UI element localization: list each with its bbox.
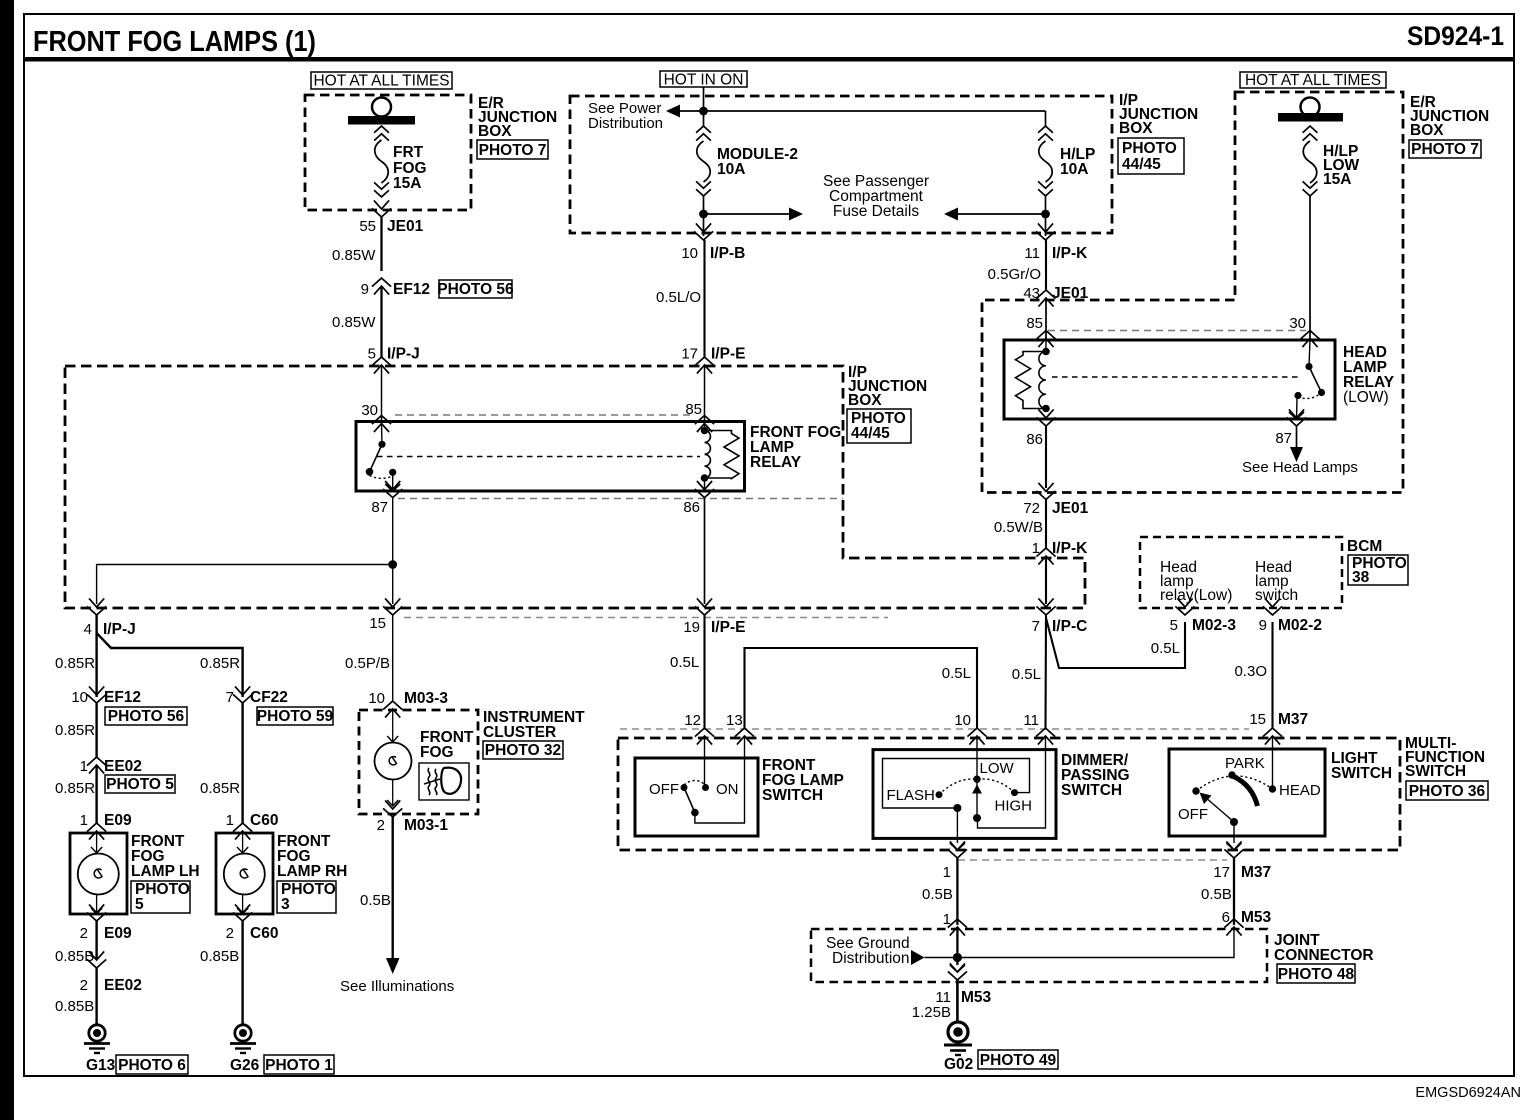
multi-function switch label bbox=[1405, 735, 1485, 780]
front fog relay internal dashed line bbox=[377, 456, 700, 458]
svg-text:0.5L: 0.5L bbox=[1012, 666, 1041, 683]
svg-text:10: 10 bbox=[681, 245, 698, 262]
wire I/P-J to relay pin 30 bbox=[381, 366, 383, 421]
svg-text:M02-3: M02-3 bbox=[1192, 617, 1236, 634]
wire CF22 to C60 0.85R bbox=[241, 703, 243, 823]
svg-text:15: 15 bbox=[369, 615, 386, 632]
connector 13 bbox=[726, 712, 754, 745]
connector 17 I/P-E bbox=[681, 346, 745, 374]
svg-text:2: 2 bbox=[377, 817, 385, 834]
svg-text:FRONT FOG LAMPS (1): FRONT FOG LAMPS (1) bbox=[33, 26, 316, 58]
PHOTO 7 label (right) bbox=[1409, 140, 1481, 158]
svg-text:44/45: 44/45 bbox=[1122, 156, 1161, 173]
svg-text:1: 1 bbox=[943, 864, 951, 881]
svg-text:I/P-K: I/P-K bbox=[1052, 540, 1088, 557]
connector 87 (head lamp relay) bbox=[1275, 409, 1306, 447]
connector 85 (head lamp relay) bbox=[1026, 315, 1055, 347]
head lamp relay coil bbox=[1039, 352, 1046, 409]
wire I/P-J 4 down 0.85R bbox=[95, 615, 97, 697]
svg-text:CLUSTER: CLUSTER bbox=[483, 724, 556, 741]
svg-text:relay(Low): relay(Low) bbox=[1160, 587, 1232, 604]
svg-text:BOX: BOX bbox=[848, 392, 882, 409]
svg-text:5: 5 bbox=[1170, 617, 1178, 634]
dimmer/passing switch box bbox=[873, 750, 1056, 839]
E/R junction box label bbox=[478, 95, 557, 140]
svg-text:E09: E09 bbox=[104, 812, 132, 829]
svg-text:HOT AT ALL TIMES: HOT AT ALL TIMES bbox=[313, 73, 449, 90]
junction node below 87 bbox=[388, 560, 397, 569]
HOT IN ON label bbox=[660, 71, 747, 89]
svg-text:0.85R: 0.85R bbox=[55, 780, 95, 797]
svg-text:I/P-J: I/P-J bbox=[387, 346, 420, 363]
PHOTO 6 label bbox=[116, 1055, 188, 1074]
svg-text:EF12: EF12 bbox=[104, 689, 141, 706]
arrow see ground distribution bbox=[911, 950, 925, 965]
svg-text:15: 15 bbox=[1249, 711, 1266, 728]
svg-text:FOG: FOG bbox=[420, 744, 454, 761]
svg-text:BOX: BOX bbox=[1119, 120, 1153, 137]
wire branch to RH lamp bbox=[97, 633, 243, 697]
wire C60 to ground 0.85B bbox=[241, 921, 243, 1026]
svg-text:G26: G26 bbox=[230, 1057, 260, 1074]
connector 17 M37 bbox=[1213, 841, 1271, 881]
wire M03-1 to see illuminations 0.5B bbox=[392, 817, 394, 960]
svg-text:15A: 15A bbox=[393, 175, 421, 192]
connector 2 EE02 bbox=[80, 951, 142, 994]
PHOTO 7 label (left) bbox=[477, 140, 548, 159]
wire 86 to JE01 bbox=[1045, 426, 1047, 488]
svg-text:Distribution: Distribution bbox=[832, 950, 910, 967]
svg-text:M02-2: M02-2 bbox=[1278, 617, 1322, 634]
fuse label H/LP LOW 15A bbox=[1323, 143, 1360, 188]
head lamp relay internal dashed line bbox=[1052, 376, 1300, 378]
svg-text:0.5B: 0.5B bbox=[922, 886, 953, 903]
svg-text:HEAD: HEAD bbox=[1279, 782, 1321, 799]
wire pin 13 to dimmer pin 10 bbox=[745, 648, 978, 728]
svg-text:6: 6 bbox=[1222, 909, 1230, 926]
E/R junction box (right) + head lamp relay dashed region bbox=[982, 92, 1403, 493]
front fog lamp switch box bbox=[635, 758, 758, 836]
svg-text:PHOTO 32: PHOTO 32 bbox=[485, 742, 561, 759]
connector 4 I/P-J bbox=[84, 598, 136, 638]
wire below MODULE-2 fuse bbox=[703, 196, 705, 236]
svg-text:SWITCH: SWITCH bbox=[1061, 782, 1122, 799]
svg-text:4: 4 bbox=[84, 621, 92, 638]
svg-text:15A: 15A bbox=[1323, 171, 1351, 188]
svg-text:JE01: JE01 bbox=[1052, 500, 1089, 517]
page left black bar bbox=[0, 0, 14, 1120]
battery terminal circle (left E/R box) bbox=[372, 98, 391, 117]
dashed inner row line (switch top) bbox=[620, 728, 1249, 730]
connector 9 M02-2 bbox=[1259, 598, 1322, 634]
svg-text:0.85W: 0.85W bbox=[332, 314, 376, 331]
front fog indicator label bbox=[420, 729, 474, 761]
title rule bbox=[24, 57, 1514, 62]
svg-text:9: 9 bbox=[1259, 617, 1267, 634]
connector 85 (front fog relay) bbox=[685, 401, 714, 432]
connector 5 I/P-J bbox=[368, 346, 420, 374]
svg-text:0.85R: 0.85R bbox=[200, 780, 240, 797]
joint connector box (dashed) bbox=[811, 929, 1267, 982]
wire EE02 to ground 0.85B bbox=[95, 968, 97, 1026]
light switch box bbox=[1169, 749, 1325, 836]
svg-text:I/P-C: I/P-C bbox=[1052, 618, 1087, 635]
connector 10 I/P-B bbox=[681, 223, 745, 262]
connector 2 E09 bbox=[80, 904, 132, 942]
svg-text:10: 10 bbox=[954, 712, 971, 729]
svg-text:E09: E09 bbox=[104, 925, 132, 942]
wire pin 12 into switch bbox=[704, 737, 706, 788]
see head lamps arrow bbox=[1290, 426, 1303, 462]
svg-text:55: 55 bbox=[359, 218, 376, 235]
svg-text:M53: M53 bbox=[961, 989, 992, 1006]
svg-text:PHOTO 6: PHOTO 6 bbox=[118, 1057, 186, 1074]
dimmer/passing switch label bbox=[1061, 752, 1130, 799]
battery terminal circle (right E/R box) bbox=[1301, 98, 1320, 117]
svg-text:0.85B: 0.85B bbox=[55, 998, 94, 1015]
connector 10 EF12 bbox=[71, 686, 141, 706]
junction node (ground bus) bbox=[953, 953, 962, 962]
svg-text:85: 85 bbox=[1026, 315, 1043, 332]
connector 7 CF22 bbox=[226, 686, 288, 706]
wire I/P-C to dimmer pin 11 0.5L bbox=[1044, 615, 1047, 728]
wire EF12 to EE02 0.85R bbox=[95, 703, 97, 757]
svg-text:38: 38 bbox=[1352, 569, 1370, 586]
wire pin 10 into dimmer bbox=[976, 737, 978, 818]
wire pin 11 into dimmer bbox=[978, 737, 1046, 828]
svg-text:SWITCH: SWITCH bbox=[1405, 763, 1466, 780]
svg-text:1: 1 bbox=[1032, 540, 1040, 557]
instrument cluster box (dashed) bbox=[359, 710, 478, 814]
svg-text:PHOTO 59: PHOTO 59 bbox=[257, 708, 334, 725]
wire I/P-K to JE01 0.5Gr/O bbox=[1045, 240, 1047, 290]
fuse MODULE-2 10A bbox=[696, 126, 711, 196]
svg-text:87: 87 bbox=[371, 499, 388, 516]
wire light switch common down bbox=[1233, 822, 1235, 843]
head lamp relay switch arm bbox=[1046, 340, 1325, 419]
PHOTO 38 label bbox=[1348, 555, 1408, 586]
wire junction to I/P-J 4 bbox=[97, 565, 393, 605]
wire EF12 to I/P-J 0.85W bbox=[380, 287, 382, 357]
svg-text:10A: 10A bbox=[1060, 161, 1088, 178]
connector 30 (front fog relay) bbox=[361, 402, 391, 432]
svg-text:PHOTO 56: PHOTO 56 bbox=[108, 708, 185, 725]
I/P junction box (main, dashed outline) bbox=[65, 366, 1085, 608]
svg-text:EF12: EF12 bbox=[393, 281, 430, 298]
wire M02-2 to light switch 0.3O bbox=[1271, 622, 1273, 728]
connector 5 M02-3 bbox=[1170, 598, 1237, 634]
dashed inner row line I/P-E bbox=[404, 617, 888, 619]
svg-text:G13: G13 bbox=[86, 1057, 116, 1074]
svg-text:PARK: PARK bbox=[1225, 755, 1265, 772]
svg-text:0.5B: 0.5B bbox=[360, 892, 391, 909]
front fog lamp RH label bbox=[277, 833, 347, 880]
PHOTO 44/45 label (top) bbox=[1118, 138, 1184, 174]
BCM box (dashed) bbox=[1140, 537, 1342, 608]
svg-text:2: 2 bbox=[80, 925, 88, 942]
svg-text:CF22: CF22 bbox=[250, 689, 288, 706]
svg-text:HOT IN ON: HOT IN ON bbox=[664, 72, 744, 89]
svg-text:0.5L/O: 0.5L/O bbox=[656, 289, 701, 306]
wire I/P-B to I/P-E 0.5L/O bbox=[703, 240, 705, 357]
svg-text:M53: M53 bbox=[1241, 909, 1272, 926]
front fog indicator icon bbox=[419, 763, 469, 800]
PHOTO 48 label bbox=[1277, 964, 1355, 983]
coil terminal nodes (head lamp relay) bbox=[1042, 348, 1050, 356]
svg-text:0.5Gr/O: 0.5Gr/O bbox=[988, 266, 1041, 283]
svg-text:0.85W: 0.85W bbox=[332, 247, 376, 264]
arrow left from H/LP fuse bbox=[944, 208, 1046, 221]
svg-text:HIGH: HIGH bbox=[995, 798, 1033, 815]
see ground distribution note bbox=[826, 935, 910, 967]
connector 1 M53 bbox=[943, 911, 967, 936]
svg-text:PHOTO 5: PHOTO 5 bbox=[106, 776, 174, 793]
connector 43 JE01 bbox=[1023, 285, 1088, 307]
wire pin 13 into switch bbox=[695, 737, 745, 823]
head lamp relay box bbox=[1004, 340, 1335, 419]
wire H/LP LOW fuse to relay pin 30 bbox=[1309, 196, 1311, 340]
svg-text:RELAY: RELAY bbox=[750, 454, 802, 471]
svg-text:BOX: BOX bbox=[478, 123, 512, 140]
svg-text:86: 86 bbox=[1026, 431, 1043, 448]
svg-text:M37: M37 bbox=[1241, 864, 1271, 881]
svg-text:13: 13 bbox=[726, 712, 743, 729]
PHOTO 1 label bbox=[264, 1055, 334, 1074]
svg-text:PHOTO 1: PHOTO 1 bbox=[265, 1057, 333, 1074]
svg-text:44/45: 44/45 bbox=[851, 425, 890, 442]
svg-text:I/P-E: I/P-E bbox=[711, 619, 745, 636]
coil terminal nodes (front fog relay) bbox=[701, 427, 709, 435]
front fog lamp LH label bbox=[131, 833, 200, 880]
svg-text:I/P-B: I/P-B bbox=[710, 245, 745, 262]
svg-text:LOW: LOW bbox=[980, 760, 1015, 777]
svg-text:10: 10 bbox=[368, 690, 385, 707]
ground G02 bbox=[944, 1022, 973, 1073]
svg-text:11: 11 bbox=[1023, 712, 1039, 729]
wire 85 into coil bbox=[704, 424, 706, 431]
svg-text:OFF: OFF bbox=[649, 781, 679, 798]
PHOTO 59 label bbox=[257, 707, 334, 725]
light switch contacts OFF/PARK/HEAD bbox=[1178, 755, 1321, 826]
fuse FRT FOG 15A bbox=[374, 126, 389, 197]
svg-text:17: 17 bbox=[681, 346, 698, 363]
fuse label FRT FOG 15A bbox=[393, 144, 427, 192]
svg-text:11: 11 bbox=[1024, 245, 1040, 262]
connector 2 M03-1 bbox=[377, 800, 449, 834]
connector 11 I/P-K bbox=[1024, 223, 1088, 262]
joint connector label bbox=[1274, 932, 1374, 964]
junction node below MODULE-2 bbox=[699, 210, 708, 219]
svg-text:0.85R: 0.85R bbox=[200, 655, 240, 672]
PHOTO 44/45 label (middle) bbox=[847, 409, 911, 443]
E/R junction box (left, dashed) bbox=[305, 95, 471, 210]
BCM pin label head lamp switch bbox=[1255, 559, 1298, 604]
svg-text:72: 72 bbox=[1023, 500, 1040, 517]
svg-text:OFF: OFF bbox=[1178, 806, 1208, 823]
connector 1 EE02 bbox=[80, 757, 142, 775]
connector 19 I/P-E bbox=[683, 598, 745, 636]
wire top bus in HOT IN ON box bbox=[680, 87, 1046, 126]
svg-text:EE02: EE02 bbox=[104, 977, 142, 994]
svg-text:C60: C60 bbox=[250, 925, 278, 942]
wire 87 down to junction bbox=[392, 498, 394, 565]
svg-text:FLASH: FLASH bbox=[887, 787, 935, 804]
svg-text:LAMP RH: LAMP RH bbox=[277, 863, 347, 880]
svg-text:Distribution: Distribution bbox=[588, 115, 663, 132]
see passenger compartment fuse details note bbox=[823, 173, 929, 220]
wire below H/LP fuse bbox=[1045, 196, 1047, 236]
svg-text:JE01: JE01 bbox=[387, 218, 424, 235]
svg-text:EE02: EE02 bbox=[104, 758, 142, 775]
svg-text:M03-3: M03-3 bbox=[404, 690, 448, 707]
front fog lamp RH box bbox=[216, 833, 273, 914]
fuse label H/LP 10A bbox=[1060, 146, 1095, 178]
dimmer contacts FLASH/LOW/HIGH bbox=[887, 760, 1033, 822]
connector 1 E09 bbox=[80, 812, 132, 840]
svg-text:C60: C60 bbox=[250, 812, 278, 829]
svg-text:See Head Lamps: See Head Lamps bbox=[1242, 459, 1358, 476]
HOT AT ALL TIMES label (left) bbox=[311, 72, 452, 90]
connector 10 M03-3 bbox=[368, 690, 448, 718]
ground bus wire in joint connector bbox=[925, 928, 1235, 958]
PHOTO 56 label (top) bbox=[437, 280, 514, 298]
svg-text:5: 5 bbox=[368, 346, 376, 363]
wire switch 1 to M53 0.5B bbox=[956, 858, 958, 925]
wire M53 to ground 1.25B bbox=[956, 980, 959, 1022]
PHOTO 49 label bbox=[978, 1050, 1058, 1069]
svg-text:PHOTO 56: PHOTO 56 bbox=[437, 281, 514, 298]
arrow right to fuse details bbox=[704, 208, 804, 221]
connector 11 M53 bbox=[935, 963, 991, 1006]
svg-text:19: 19 bbox=[683, 619, 700, 636]
connector 1 (dimmer out) bbox=[943, 841, 967, 881]
wire E09 to EE02 0.85B bbox=[95, 921, 97, 960]
svg-text:0.85R: 0.85R bbox=[55, 655, 95, 672]
arrow to see power distribution bbox=[666, 105, 680, 118]
svg-text:I/P-J: I/P-J bbox=[103, 621, 136, 638]
I/P junction box (top, dashed) bbox=[570, 96, 1112, 233]
wire 86 down to I/P-E 19 bbox=[704, 498, 706, 604]
svg-text:3: 3 bbox=[281, 896, 290, 913]
svg-text:BOX: BOX bbox=[1410, 122, 1444, 139]
svg-text:HOT AT ALL TIMES: HOT AT ALL TIMES bbox=[1245, 72, 1381, 89]
svg-text:G02: G02 bbox=[944, 1056, 973, 1073]
bus bar (right E/R box) bbox=[1278, 113, 1343, 122]
svg-text:30: 30 bbox=[1289, 315, 1306, 332]
dashed link 30 to 85 (front fog relay) bbox=[395, 414, 694, 416]
svg-text:0.5P/B: 0.5P/B bbox=[345, 655, 390, 672]
svg-text:FRT: FRT bbox=[393, 144, 424, 161]
svg-text:1: 1 bbox=[80, 812, 88, 829]
front fog lamp LH bulb bbox=[78, 834, 119, 914]
PHOTO 56 label (bottom) bbox=[105, 707, 187, 725]
wire I/P-E to relay pin 85 bbox=[704, 366, 706, 421]
front fog indicator bulb bbox=[375, 710, 412, 806]
I/P junction box label (middle right) bbox=[848, 364, 927, 409]
connector 86 (front fog relay) bbox=[683, 481, 714, 516]
fog switch contacts OFF/ON bbox=[649, 781, 739, 817]
svg-text:Fuse Details: Fuse Details bbox=[833, 203, 919, 220]
I/P junction box label (top right) bbox=[1119, 92, 1198, 137]
svg-text:CONNECTOR: CONNECTOR bbox=[1274, 947, 1374, 964]
fuse H/LP LOW 15A bbox=[1303, 126, 1318, 196]
connector 1 I/P-K bbox=[1032, 540, 1088, 565]
wire dimmer common down bbox=[956, 808, 958, 843]
svg-text:I/P-E: I/P-E bbox=[711, 346, 745, 363]
svg-text:PHOTO 49: PHOTO 49 bbox=[980, 1052, 1057, 1069]
PHOTO 36 label bbox=[1406, 781, 1488, 800]
connector 7 I/P-C bbox=[1032, 598, 1088, 635]
wire EE02 to E09 0.85R bbox=[95, 766, 97, 823]
svg-text:LAMP LH: LAMP LH bbox=[131, 863, 200, 880]
connector 30 (head lamp relay) bbox=[1289, 315, 1319, 347]
wire I/P-C to M02-3 0.5L bbox=[1046, 618, 1185, 668]
svg-text:PHOTO 36: PHOTO 36 bbox=[1409, 783, 1486, 800]
svg-text:87: 87 bbox=[1275, 430, 1292, 447]
connector 2 C60 bbox=[226, 904, 279, 942]
svg-text:PHOTO 7: PHOTO 7 bbox=[479, 142, 547, 159]
bus bar (left E/R box) bbox=[348, 116, 415, 125]
front fog relay switch arm bbox=[366, 424, 401, 491]
wire I/P-K to I/P-C bbox=[1045, 557, 1047, 604]
connector 1 C60 bbox=[226, 812, 279, 840]
PHOTO 32 label bbox=[483, 741, 563, 759]
front fog lamp relay label bbox=[750, 424, 841, 471]
wire JE01 to relay pin 85 bbox=[1045, 299, 1047, 340]
wire JE01 to EF12 0.85W bbox=[380, 217, 382, 271]
see illuminations arrow bbox=[386, 958, 400, 974]
svg-text:0.85R: 0.85R bbox=[55, 722, 95, 739]
light switch label bbox=[1331, 750, 1392, 782]
svg-text:0.3O: 0.3O bbox=[1234, 663, 1267, 680]
svg-text:SD924-1: SD924-1 bbox=[1407, 21, 1504, 51]
dashed link 87 to 86 bbox=[398, 498, 843, 500]
svg-text:2: 2 bbox=[80, 977, 88, 994]
svg-text:0.5B: 0.5B bbox=[1201, 886, 1232, 903]
fuse H/LP 10A bbox=[1038, 126, 1053, 196]
wire junction down to 15 bbox=[392, 565, 394, 605]
connector 10 (dimmer) bbox=[954, 712, 986, 745]
svg-text:0.5W/B: 0.5W/B bbox=[994, 519, 1043, 536]
svg-text:85: 85 bbox=[685, 401, 702, 418]
svg-text:12: 12 bbox=[684, 712, 701, 729]
front fog lamp switch label bbox=[762, 757, 844, 804]
svg-text:0.85B: 0.85B bbox=[200, 948, 239, 965]
front fog relay resistor bbox=[705, 431, 740, 479]
svg-text:5: 5 bbox=[135, 896, 144, 913]
see power distribution note bbox=[588, 100, 663, 132]
svg-text:See Illuminations: See Illuminations bbox=[340, 978, 454, 995]
svg-text:PHOTO 7: PHOTO 7 bbox=[1411, 141, 1479, 158]
svg-text:1: 1 bbox=[226, 812, 234, 829]
svg-text:9: 9 bbox=[361, 281, 369, 298]
svg-text:(LOW): (LOW) bbox=[1343, 389, 1389, 406]
connector 72 JE01 bbox=[1023, 483, 1088, 517]
svg-text:10: 10 bbox=[71, 689, 88, 706]
instrument cluster label bbox=[483, 709, 585, 741]
fuse label MODULE-2 10A bbox=[717, 146, 798, 178]
PHOTO 5 label (lamp LH) bbox=[131, 881, 190, 913]
svg-text:30: 30 bbox=[361, 402, 378, 419]
connector 6 M53 bbox=[1222, 909, 1272, 936]
dashed inner row line (below switches) bbox=[958, 859, 1227, 861]
junction node at MODULE-2 fuse top bbox=[699, 107, 708, 116]
svg-text:PHOTO: PHOTO bbox=[1122, 140, 1177, 157]
svg-text:I/P-K: I/P-K bbox=[1052, 245, 1088, 262]
svg-text:0.5L: 0.5L bbox=[670, 654, 699, 671]
svg-text:SWITCH: SWITCH bbox=[762, 787, 823, 804]
svg-text:ON: ON bbox=[716, 781, 739, 798]
